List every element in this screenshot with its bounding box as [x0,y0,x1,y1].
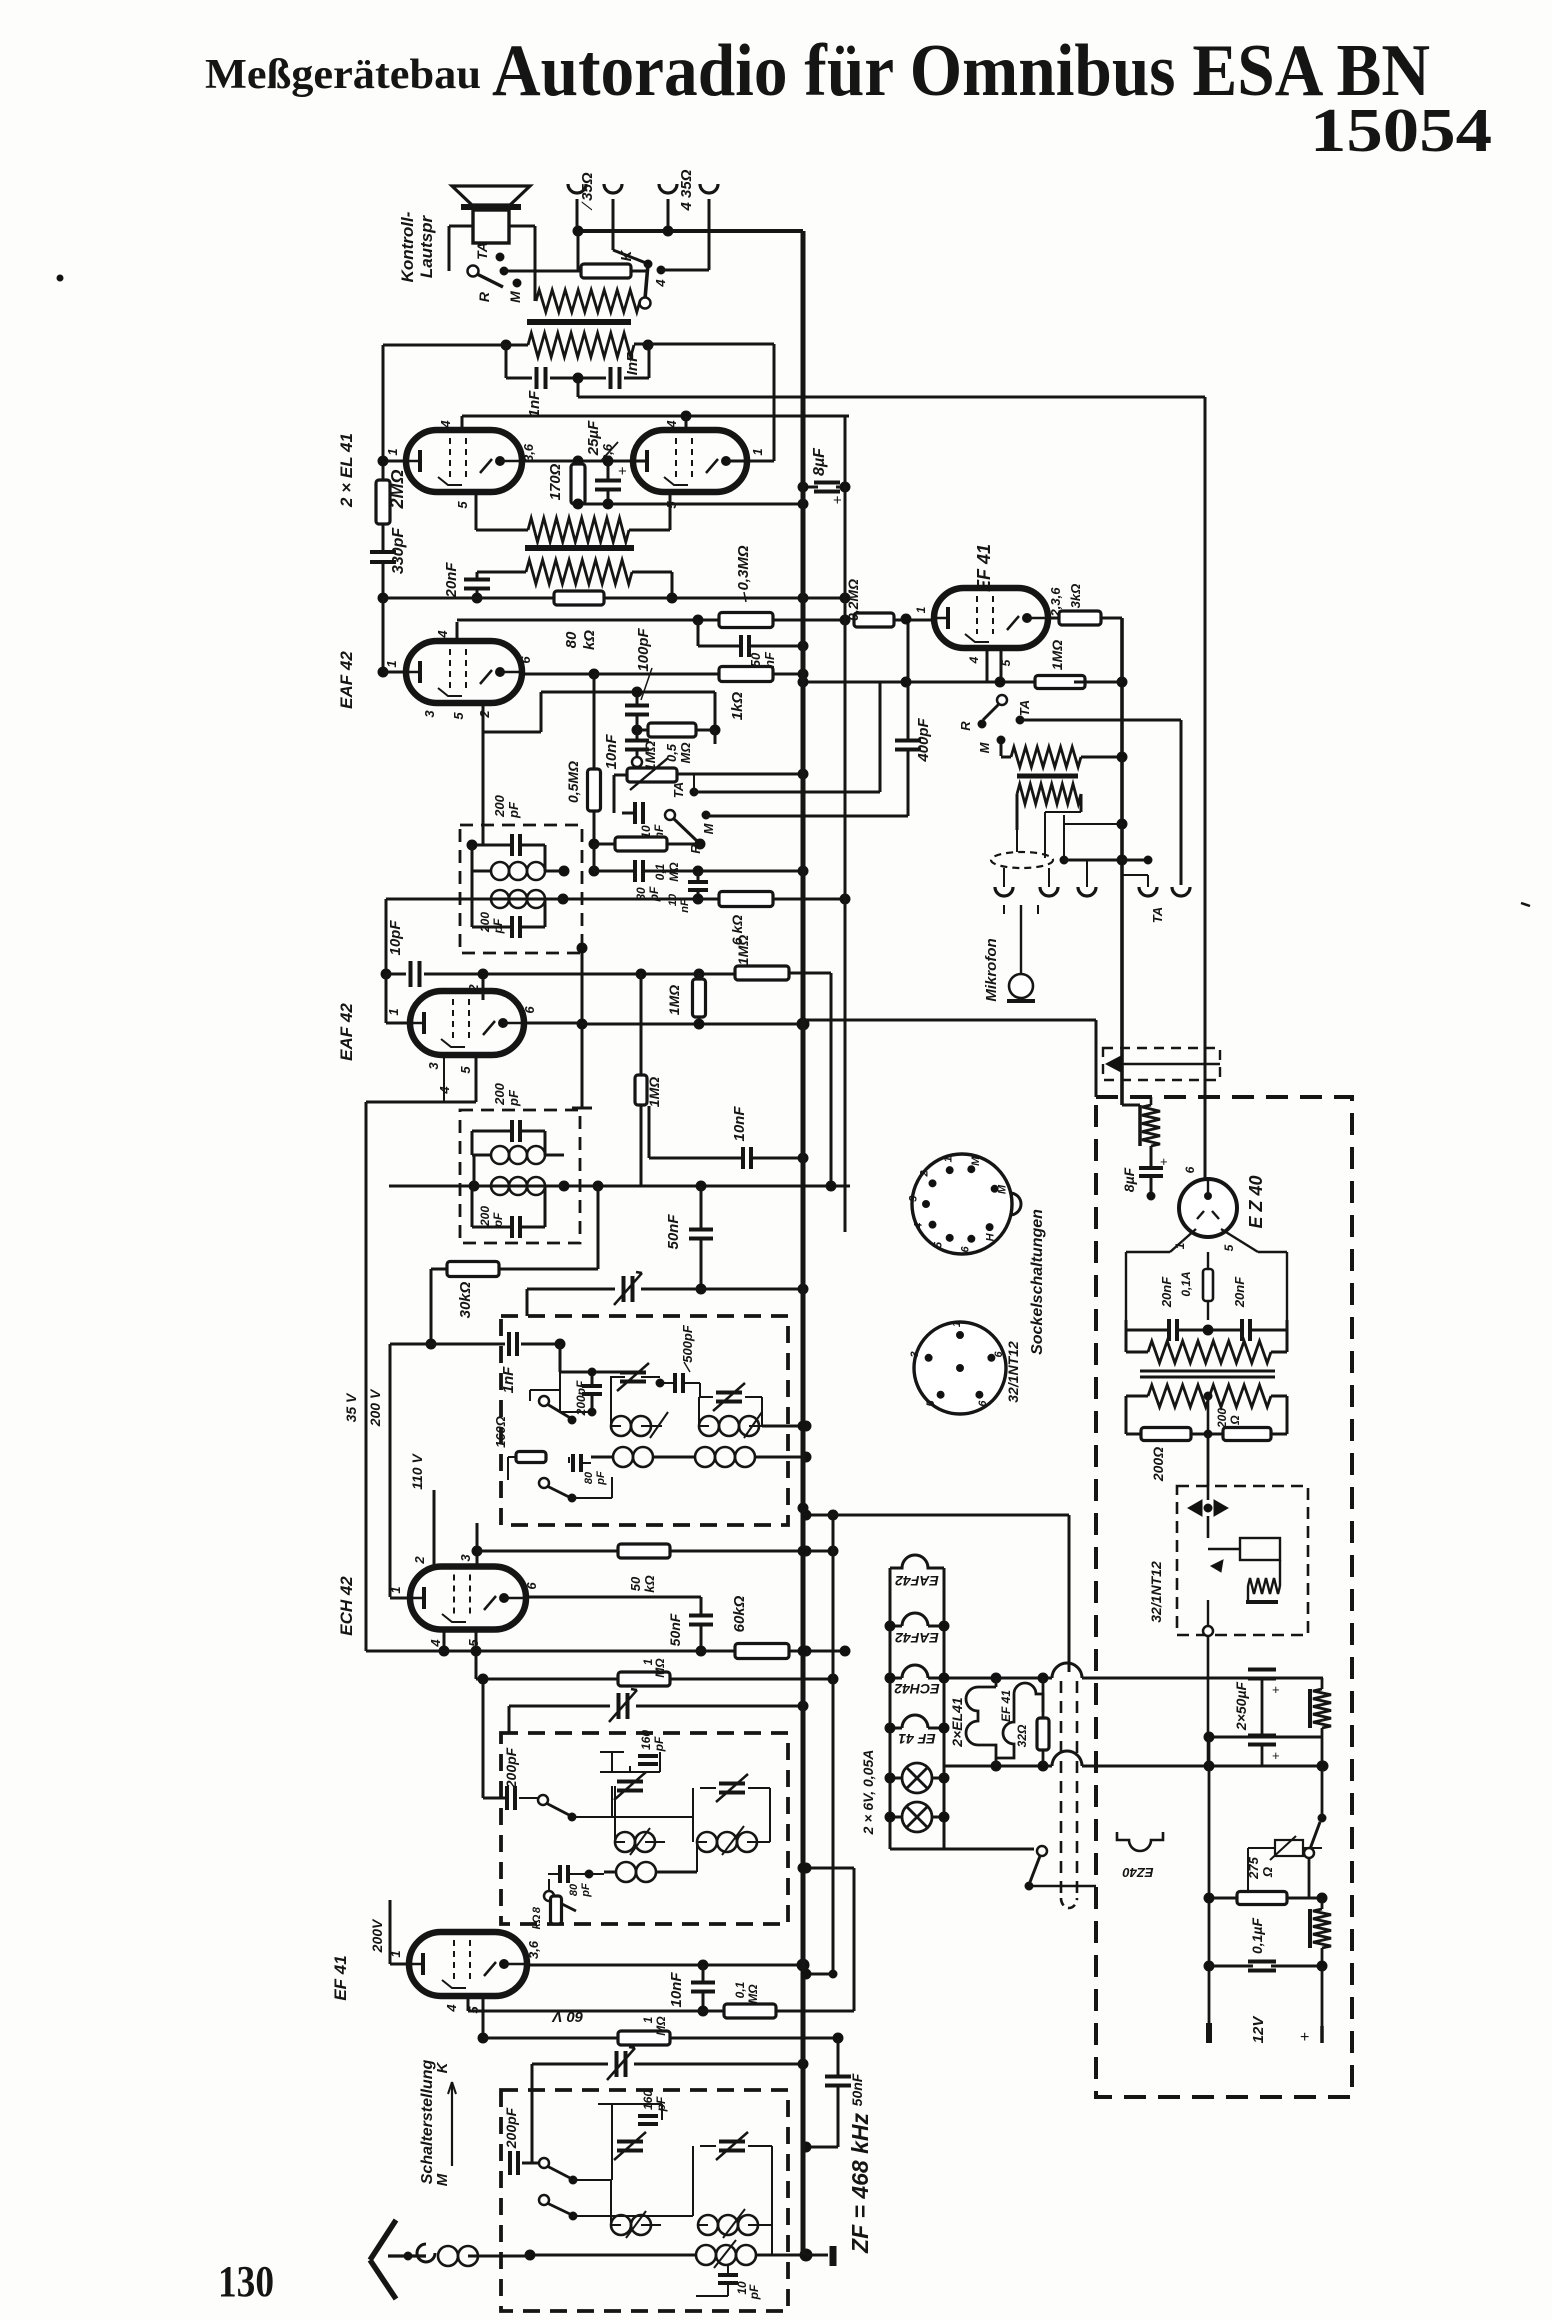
wire M ef [1000,744,1003,756]
vibrator coil box [1240,1538,1280,1560]
wire tube2 pin4 [685,416,688,430]
wire grid2 path [482,703,485,732]
wire jack2b [708,199,711,270]
wire mic b [1045,811,1081,813]
svg-text:pF: pF [747,2284,761,2300]
svg-text:M: M [434,2173,451,2186]
wire 2M-330p [382,524,385,551]
resistor 1M h [735,966,789,980]
ant trim1 [617,2140,643,2144]
svg-text:8µF: 8µF [1121,1167,1137,1192]
IF2 coil2 [491,1177,509,1195]
svg-text:Sockelschaltungen: Sockelschaltungen [1029,1209,1046,1355]
main bus [801,231,806,2255]
wire 20nF row [1126,1329,1168,1332]
vibrator arrow [1211,1560,1223,1572]
svg-text:80: 80 [563,631,580,648]
heater dashed pair [1060,1681,1063,1898]
svg-text:6: 6 [993,1350,1005,1357]
svg-text:∕ 35Ω: ∕ 35Ω [579,172,596,211]
wire pot left [614,774,627,777]
svg-text:3,6: 3,6 [600,443,615,462]
svg-text:6: 6 [1183,1166,1197,1173]
wire y1737 [1209,1736,1323,1739]
svg-text:60kΩ: 60kΩ [731,1595,748,1632]
svg-text:330pF: 330pF [390,527,407,574]
wire T1 left drop [505,345,508,378]
choke 1 [1308,1689,1312,1728]
wire 1M row ech [475,1630,478,1679]
svg-text:20nF: 20nF [443,562,460,599]
ant switch1 [539,2158,549,2168]
svg-text:0,1µF: 0,1µF [1249,1918,1265,1955]
socket 5pin pins [957,1365,964,1372]
transformer T2 primary [528,518,629,542]
lamp 1 [902,1763,932,1793]
svg-text:200: 200 [478,912,492,933]
svg-text:3,6: 3,6 [521,443,536,462]
svg-text:ECH 42: ECH 42 [337,1576,356,1636]
resistor 0.1M rf [724,2004,776,2018]
svg-text:50nF: 50nF [665,1214,682,1250]
wire y1186 long [389,1185,850,1188]
wire left frame b [366,1101,476,1104]
svg-text:4: 4 [428,1639,443,1648]
wire tube1 pin1 [383,460,406,463]
resistor 80k [554,591,604,605]
vibrator out [1203,1626,1213,1636]
svg-text:200Ω: 200Ω [1150,1447,1166,1482]
wire plate join [522,460,648,463]
transformer T2 core [525,545,634,551]
svg-text:5: 5 [451,712,466,720]
svg-text:EAF 42: EAF 42 [337,1003,356,1061]
capacitor 20nF b [1240,1319,1244,1341]
wire v474 [473,1155,476,1186]
svg-text:Meßgerätebau: Meßgerätebau [205,52,481,98]
wire ant gnd [800,2249,812,2261]
svg-text:275: 275 [1246,1856,1261,1879]
resistor 60k [735,1644,789,1659]
svg-text:2 × EL 41: 2 × EL 41 [337,433,356,508]
tube EAF42 b [410,991,524,1055]
ant wires a [573,2179,612,2181]
wire pin4 line [456,622,459,641]
wire switch cont [1029,1885,1096,1888]
wire y824 [1064,823,1122,825]
svg-text:5: 5 [455,501,470,509]
tube EF41 audio [934,588,1048,648]
svg-text:+: + [1160,1154,1168,1169]
wire tube1 pin5 [475,492,478,530]
svg-text:12V: 12V [1250,2015,1267,2044]
svg-text:MΩ: MΩ [653,1658,667,1678]
osc1 resistor 160b [516,1452,546,1463]
IF2 coil1 [491,1146,509,1164]
capacitor 50nF a [739,635,743,657]
osc2 wire b [692,1816,694,1818]
osc2 cap 200pF [505,1786,509,1810]
svg-text:50: 50 [628,1576,643,1591]
svg-text:Ω: Ω [1228,1415,1242,1426]
svg-text:1MΩ: 1MΩ [666,985,682,1015]
svg-text:60 V: 60 V [551,2008,584,2025]
heater group 2xEL41 [966,1683,1043,1758]
svg-text:200pF: 200pF [503,2107,519,2149]
osc1 cap 500pF [673,1373,677,1393]
vibrator box [1177,1486,1308,1635]
ant coil1 [611,2215,631,2235]
svg-text:EF 41: EF 41 [331,1955,350,2000]
wire bus to 845 [803,597,845,600]
svg-text:5: 5 [1222,1244,1236,1251]
wire 0.5Mb right [714,730,717,744]
svg-text:200: 200 [492,1082,507,1105]
wire y973 line [424,973,734,976]
svg-text:R: R [958,721,973,731]
wire pin6 rf [527,1964,803,1967]
svg-text:1: 1 [384,660,399,667]
svg-text:pF: pF [506,1089,521,1107]
wire 0.3M right [773,619,845,622]
svg-text:1kΩ: 1kΩ [729,692,746,721]
svg-text:K: K [434,2061,451,2073]
svg-text:2: 2 [412,1556,427,1565]
resistor 30k [447,1262,499,1277]
svg-text:170Ω: 170Ω [547,463,564,500]
svg-text:K: K [618,249,635,261]
osc2 coil3b [697,1841,1552,1843]
capacitor 100pF [625,704,649,708]
svg-text:1: 1 [388,1950,403,1957]
socket 5pin [914,1322,1006,1414]
ant cap 10pF [727,2265,729,2273]
contact 4 [657,266,665,274]
osc2 switch1 [538,1795,548,1805]
svg-text:EF 41: EF 41 [999,1690,1013,1722]
wire M line [706,815,908,818]
svg-text:M: M [970,1156,982,1166]
svg-text:10pF: 10pF [387,920,404,956]
label 25uF [600,442,618,462]
osc2 coil1 [615,1832,635,1852]
mikrofon circle [1009,974,1033,998]
wire vib feed [1207,1434,1210,1486]
osc1 wire top [559,1344,562,1372]
wire pot right [677,773,803,776]
wire pin6 ech [526,1596,701,1599]
contact R ef [978,720,986,728]
svg-text:+: + [1272,1682,1280,1697]
trimmer row rf [532,2063,608,2066]
wire pin1 b [385,974,388,1023]
switch S1 speaker [468,266,479,277]
svg-text:EAF42: EAF42 [895,1630,939,1646]
wire pin2 ech [433,1490,436,1566]
node top bus corner [801,231,805,262]
osc1 trim2 [716,1391,742,1395]
heater line P1 [944,1677,1052,1680]
trimmer C row1 [527,1288,615,1291]
svg-text:130: 130 [218,2257,274,2306]
svg-text:1nF: 1nF [526,390,543,418]
capacitor 8uF b [1150,1146,1153,1166]
ant cap 200pF [508,2151,512,2175]
svg-text:M: M [507,291,523,303]
battery 12V [1206,2023,1212,2043]
antenna coil [438,2246,458,2266]
wire 50nF to bus [751,645,803,648]
capacitor 50uF a [1248,1668,1276,1672]
svg-text:200: 200 [1215,1408,1229,1429]
wire top bus [578,229,803,233]
svg-text:Autoradio für Omnibus ESA BN: Autoradio für Omnibus ESA BN [492,30,1430,112]
ant coil3 [696,2245,716,2265]
capacitor 10nF b [625,739,649,743]
svg-text:80: 80 [583,1471,595,1484]
osc2 wire a [572,1816,648,1818]
wire pin4 ef [986,648,989,682]
heater feed [806,1514,1069,1517]
contact TA ef [1016,716,1024,724]
svg-text:6: 6 [524,1582,539,1590]
ant box [501,2090,788,2311]
IF1 cap bot [510,916,514,938]
socket 8pin [912,1154,1012,1254]
antenna wire [388,2254,426,2257]
svg-text:ZF = 468 kHz: ZF = 468 kHz [847,2113,873,2254]
osc2 coil3 [616,1862,636,1882]
svg-text:5: 5 [458,1066,473,1074]
svg-text:5: 5 [466,1639,481,1647]
pot bar [1017,774,1078,779]
ant trim2 [719,2140,745,2144]
wire 1nF row [390,1343,505,1346]
svg-text:pF: pF [652,1736,666,1752]
svg-text:M: M [701,822,716,834]
label 100pF [641,668,652,700]
wire pin3 ech [476,1523,479,1566]
resistor 0.1M [615,837,667,851]
ant coil2 [698,2215,718,2235]
wire 200V [389,1900,392,1964]
wire jack1a [576,199,579,231]
wire 1M row rf [482,1996,485,2038]
wire to EF41 pin1 [894,619,934,622]
svg-text:400pF: 400pF [915,717,932,762]
svg-text:nF: nF [679,899,691,913]
svg-text:EZ40: EZ40 [1122,1865,1154,1880]
wire res-switch [631,270,648,273]
resistor 32ohm [1037,1718,1049,1750]
svg-text:EAF42: EAF42 [895,1573,939,1589]
svg-text:TA: TA [1150,907,1165,923]
wire 1M ech right [670,1678,833,1681]
tube EL41 a [406,430,522,492]
resistor 2Mohm [376,480,390,524]
wire zig left [534,271,537,301]
svg-text:160Ω: 160Ω [493,1416,508,1448]
svg-text:1: 1 [942,1156,954,1162]
svg-text:kΩ: kΩ [581,630,598,650]
svg-text:8µF: 8µF [811,447,828,476]
TA hook2 [1172,887,1190,896]
svg-text:2: 2 [919,1170,931,1177]
svg-text:35 V: 35 V [343,1392,359,1422]
socket 8pin pins [946,1167,953,1174]
PSU box [1096,1097,1352,2097]
svg-text:TA: TA [1017,700,1032,716]
svg-text:500pF: 500pF [680,1324,695,1363]
resistor 6k [719,892,773,907]
capacitor 10pF [409,961,413,987]
wire speaker left [448,226,451,271]
IF box2 [460,1110,580,1243]
svg-text:6: 6 [522,1006,537,1014]
wire tube2 pin1 [725,460,774,463]
capacitor 50nF d [837,2038,840,2076]
wire pins ech [443,1630,446,1651]
svg-text:0,3MΩ: 0,3MΩ [735,545,752,590]
svg-text:4: 4 [653,279,668,288]
svg-text:200: 200 [478,1206,492,1227]
transformer T3 core [1140,1370,1275,1373]
wire 50k row [477,1550,618,1553]
svg-text:20nF: 20nF [1159,1276,1174,1308]
svg-text:TA: TA [474,242,490,260]
IF2 cap top [510,1120,514,1142]
wire left frame top [382,345,385,480]
wire y1024 ext [803,1019,1096,1022]
svg-text:0,5MΩ: 0,5MΩ [565,761,581,803]
ground [830,2246,837,2266]
osc1 coil1 [611,1416,631,1436]
heater tube chain [890,1555,944,1568]
wire ez40 top [1204,1178,1206,1180]
svg-text:MΩ: MΩ [654,2016,668,2036]
resistor 0.5M b [648,723,696,737]
wire pin6 b [524,1022,582,1025]
svg-text:4: 4 [967,656,981,664]
svg-text:M: M [977,741,992,753]
wire 50k right [670,1550,833,1553]
IF1 cap top [510,834,514,856]
wire pin5 ef [1000,648,1003,682]
svg-text:EAF 42: EAF 42 [337,651,356,709]
switch heater [1037,1846,1047,1856]
svg-text:1: 1 [386,1008,401,1015]
svg-text:+: + [1272,1748,1280,1763]
choke 2 [1308,1909,1312,1948]
wire TA line [694,791,880,794]
capacitor 400pF [907,619,910,740]
osc1 coil4 [695,1447,715,1467]
wire 0.1M right [776,2010,854,2013]
svg-text:Mikrofon: Mikrofon [983,938,1000,1001]
capacitor 10nF rf [691,1981,715,1985]
svg-text:+: + [833,492,842,509]
osc1 switch [539,1396,549,1406]
contact M [513,279,521,287]
svg-text:kΩ: kΩ [531,1914,543,1929]
speck dot left margin [57,275,63,281]
resistor 200b [1223,1428,1271,1441]
transformer T3 primary [1148,1385,1271,1407]
capacitor 8uF [814,481,840,485]
tube EAF42 a [406,641,522,703]
svg-text:H: H [985,1232,997,1241]
svg-text:15054: 15054 [1310,97,1492,165]
svg-text:+: + [618,463,627,480]
choke top [1142,1105,1160,1146]
speaker body [473,210,509,243]
wire 1M v2 [640,973,643,1076]
jack hooks 4-35ohm [659,184,677,193]
wire T2 sec left [477,571,526,574]
resistor matching zigzag [536,290,640,312]
vibrator bar [1246,1600,1278,1604]
osc1 trim1 [620,1371,646,1375]
switch psu [1318,1814,1326,1822]
tube EZ40 outline [1117,1832,1163,1851]
wire x1209 [1208,1737,1211,2023]
svg-text:2×EL41: 2×EL41 [949,1697,965,1748]
pot 1M [627,768,677,782]
mic hook2 [1040,887,1058,896]
transformer T1 secondary [528,333,634,357]
svg-text:100pF: 100pF [635,627,652,671]
svg-text:InF: InF [624,352,641,375]
wire pin2 b [482,974,485,1000]
wire cathode row [578,503,803,506]
svg-text:200: 200 [492,794,507,817]
switch K lever [644,260,652,268]
svg-text:1: 1 [914,606,928,613]
ant switch2 [539,2195,549,2205]
svg-text:8: 8 [531,1906,543,1913]
vibrator zigzag [1248,1578,1280,1594]
svg-text:10nF: 10nF [668,1972,685,2008]
wire B+ long [577,378,580,397]
cable oval [991,852,1053,868]
svg-text:1MΩ: 1MΩ [646,1077,662,1107]
svg-text:80: 80 [568,1883,580,1896]
wire left frame mid [382,598,385,672]
svg-text:6: 6 [960,1246,972,1253]
svg-text:5: 5 [925,1400,937,1407]
tube EF41 rf [409,1932,527,1996]
wire 1M rf right [670,2037,838,2040]
resistor 50k [618,1544,670,1558]
wire 20nF down [476,590,479,598]
speck dash right margin [1521,903,1530,906]
mic hook3 [1078,887,1096,896]
svg-text:R: R [476,291,492,302]
lamp 2 [902,1802,932,1832]
osc1 coil2 [699,1416,719,1436]
pot zigzag [1011,747,1081,767]
svg-text:2×50µF: 2×50µF [1233,1681,1249,1731]
wire to resistor [578,270,580,273]
svg-text:2MΩ: 2MΩ [387,469,407,509]
wire y973 right [789,972,831,975]
resistor 1M v [693,979,706,1017]
contact M ef [997,736,1005,744]
svg-text:4: 4 [444,2004,459,2013]
svg-text:10nF: 10nF [731,1106,748,1142]
capacitor 1nF b [609,367,613,389]
wire vib to heater [1207,1636,1210,1766]
